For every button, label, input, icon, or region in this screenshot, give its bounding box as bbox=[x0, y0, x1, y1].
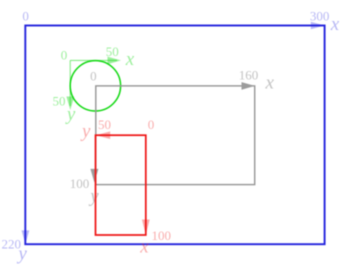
svg-text:0: 0 bbox=[61, 47, 68, 62]
svg-text:y: y bbox=[80, 121, 91, 142]
svg-text:300: 300 bbox=[310, 9, 330, 24]
svg-text:0: 0 bbox=[148, 117, 155, 132]
svg-text:y: y bbox=[16, 244, 27, 265]
svg-text:y: y bbox=[88, 186, 99, 207]
svg-text:0: 0 bbox=[90, 69, 97, 84]
svg-text:50: 50 bbox=[53, 94, 66, 109]
svg-text:x: x bbox=[265, 73, 275, 94]
svg-text:50: 50 bbox=[98, 117, 111, 132]
svg-text:160: 160 bbox=[239, 68, 259, 83]
svg-text:100: 100 bbox=[152, 228, 172, 243]
svg-text:x: x bbox=[125, 49, 135, 70]
svg-text:x: x bbox=[330, 14, 340, 35]
svg-text:x: x bbox=[139, 237, 149, 258]
svg-text:y: y bbox=[65, 104, 76, 125]
svg-text:50: 50 bbox=[106, 44, 119, 59]
svg-text:100: 100 bbox=[70, 176, 90, 191]
svg-text:0: 0 bbox=[22, 8, 29, 23]
